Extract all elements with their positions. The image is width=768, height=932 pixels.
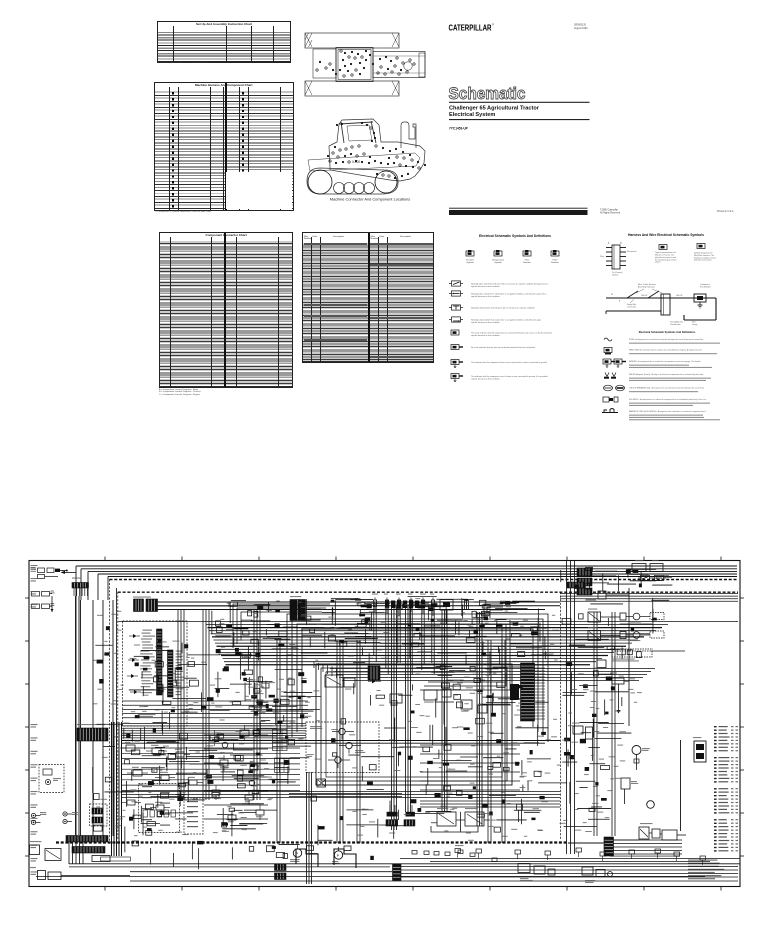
corner wire routing center right bbox=[420, 620, 510, 690]
svg-text:Schematic: Schematic bbox=[449, 84, 526, 103]
svg-text:Number: Number bbox=[551, 261, 559, 264]
table: Component Connector Chart bbox=[159, 232, 293, 388]
resistor block bbox=[572, 723, 593, 740]
machine top view illustration bbox=[305, 33, 425, 96]
svg-text:Printed in U.S.A.: Printed in U.S.A. bbox=[717, 210, 734, 213]
frame tick marks bbox=[25, 557, 744, 891]
lamp components left bbox=[31, 812, 77, 825]
note line bbox=[610, 856, 680, 857]
svg-text:Number: Number bbox=[523, 261, 531, 264]
footer bar bbox=[449, 208, 588, 215]
top view connector location dots bbox=[316, 50, 415, 77]
svg-text:specific decrease in that cond: specific decrease in that condition. bbox=[471, 321, 500, 324]
fuse block connector comb bbox=[72, 578, 89, 597]
svg-text:7YC1453-UP: 7YC1453-UP bbox=[449, 126, 469, 130]
schematic notes text bbox=[688, 860, 724, 880]
table: Machine Harness Connector chart bbox=[154, 82, 294, 211]
terminal block bbox=[92, 856, 131, 862]
cab harness connector bbox=[290, 596, 306, 621]
svg-text:shown.: shown. bbox=[655, 262, 661, 264]
solenoid circuit row 1 bbox=[588, 609, 664, 623]
svg-text:specific decrease in that cond: specific decrease in that condition. bbox=[471, 285, 500, 288]
wire bbox=[420, 745, 520, 790]
cab harness horizontal bundle bbox=[122, 724, 306, 741]
comb connector bbox=[567, 582, 585, 588]
battery connection group bbox=[31, 567, 68, 579]
main feed harness lines bbox=[118, 602, 738, 622]
svg-text:RELAY (Magnetic Switch) - A re: RELAY (Magnetic Switch) - A relay is an … bbox=[629, 373, 704, 376]
Caterpillar logo bbox=[449, 23, 495, 33]
svg-text:SOLENOID - A component in an e: SOLENOID - A component in an electrical … bbox=[629, 398, 706, 401]
rule under title bbox=[449, 101, 590, 103]
heavy vertical harness bundle bbox=[112, 722, 122, 856]
example wiring circuit bbox=[606, 283, 716, 326]
pressure switches bbox=[290, 845, 343, 864]
wire bbox=[122, 701, 308, 718]
side view connector location dots bbox=[327, 122, 426, 179]
svg-text:Temperature: Temperature bbox=[492, 258, 505, 261]
instrument connector strip J2 bbox=[168, 650, 185, 697]
concentric wire routing loops bbox=[287, 614, 548, 742]
svg-text:Normally closed switch that wi: Normally closed switch that will open wi… bbox=[471, 306, 536, 309]
wire bbox=[680, 740, 682, 831]
solenoid circuit row 2 bbox=[588, 627, 664, 641]
horn circuit dashed box bbox=[39, 765, 64, 793]
svg-text:Electrical Schematic Symbols A: Electrical Schematic Symbols And Definit… bbox=[479, 234, 551, 238]
wire riser group bbox=[69, 842, 83, 864]
table: Wire Description Chart bbox=[302, 232, 434, 364]
svg-text:CIRCUIT BREAKER (CB) - A compo: CIRCUIT BREAKER (CB) - A component in an… bbox=[629, 387, 704, 390]
svg-text:Wire: Wire bbox=[525, 258, 530, 261]
fuse block grid lower bbox=[275, 758, 290, 772]
footnotes under table 3 bbox=[159, 389, 289, 397]
brake switch loops bbox=[296, 846, 356, 868]
instrument panel dashed enclosure bbox=[123, 621, 188, 726]
svg-text:Electrical System: Electrical System bbox=[449, 112, 495, 118]
left vertical bus bundle bbox=[76, 588, 117, 836]
dashed rail lower bbox=[118, 591, 738, 593]
lower left connector combs bbox=[275, 864, 287, 880]
svg-text:FUSE - A component in an elect: FUSE - A component in an electrical circ… bbox=[629, 338, 704, 341]
svg-text:Harness And Wire Electrical Sc: Harness And Wire Electrical Schematic Sy… bbox=[628, 233, 704, 237]
wire bundle B bbox=[406, 606, 411, 812]
right feed wires bbox=[560, 594, 738, 602]
left margin circuit labels bbox=[31, 565, 38, 875]
svg-text:specific decrease in that cond: specific decrease in that condition. bbox=[471, 378, 500, 381]
cab accessory components bbox=[120, 742, 203, 810]
flasher unit bbox=[30, 841, 62, 861]
bottom harness connector and rails bbox=[393, 864, 739, 881]
symbol definitions column 2 bbox=[602, 338, 720, 420]
svg-text:Normally open switch that will: Normally open switch that will close wit… bbox=[471, 282, 549, 285]
footnote under table 1 bbox=[157, 62, 267, 65]
svg-text:145-OR: 145-OR bbox=[676, 295, 683, 297]
svg-text:August 1990: August 1990 bbox=[574, 27, 588, 30]
printed in USA bbox=[717, 210, 734, 213]
heading Electrical Schematic Symbols And Definitions bbox=[479, 234, 551, 238]
cab floor connector comb bbox=[77, 724, 108, 741]
symbol legend row bbox=[466, 250, 559, 264]
svg-text:Challenger 65 Agricultural Tra: Challenger 65 Agricultural Tractor bbox=[449, 105, 540, 111]
svg-text:©1990 Caterpillar: ©1990 Caterpillar bbox=[600, 208, 618, 211]
key switch connectors bbox=[32, 591, 55, 613]
svg-text:No circle indicates that the w: No circle indicates that the wire cannot… bbox=[471, 346, 536, 349]
wire bbox=[400, 859, 740, 862]
svg-text:Normally open switch that is c: Normally open switch that is closed due … bbox=[471, 292, 547, 295]
gauge cluster dashed box bbox=[184, 798, 203, 834]
dashed enclosure inner left edge bbox=[117, 592, 119, 840]
chassis component row bbox=[455, 848, 706, 865]
svg-text:SENDER - A component that is u: SENDER - A component that is used with a… bbox=[629, 360, 701, 363]
svg-text:Normally closed switch that is: Normally closed switch that is open due … bbox=[471, 318, 541, 321]
instrument connector strip J1 bbox=[140, 629, 162, 695]
svg-text:16: 16 bbox=[611, 294, 613, 296]
wire plate note bbox=[694, 244, 716, 262]
right vertical feeders bbox=[594, 612, 615, 836]
wire number labels scatter bbox=[93, 598, 642, 841]
svg-text:Symbol: Symbol bbox=[466, 262, 474, 264]
dashed enclosure right edge bbox=[560, 592, 562, 840]
svg-text:MAGNETIC LATCH (SOLENOID) - A: MAGNETIC LATCH (SOLENOID) - A magnetic l… bbox=[629, 410, 706, 413]
svg-text:The circle indicates that the: The circle indicates that the component … bbox=[471, 331, 552, 334]
svg-text:Connection: Connection bbox=[627, 306, 636, 309]
rule under subtitle bbox=[449, 119, 590, 121]
instrument panel label bbox=[138, 714, 156, 717]
svg-text:specific decrease in that cond: specific decrease in that condition. bbox=[471, 334, 500, 337]
fuse panel row bbox=[355, 594, 503, 676]
svg-text:Symbol: Symbol bbox=[494, 262, 502, 264]
sensor with cross bbox=[317, 779, 326, 787]
starter relay group bbox=[614, 823, 686, 840]
dashed rail upper bbox=[110, 579, 739, 581]
dashed enclosure left edge bbox=[109, 579, 111, 843]
cab floor harness lines bbox=[122, 741, 560, 744]
heading Harness And Wire Electrical Schematic Symbols bbox=[628, 233, 704, 237]
shift solenoid pair bbox=[431, 808, 490, 832]
sender circuit bbox=[597, 660, 624, 714]
footnote under table 2 bbox=[154, 211, 284, 214]
wire pair to sensors bbox=[289, 794, 402, 802]
svg-text:Plug: Plug bbox=[600, 256, 604, 258]
svg-text:145-OR: 145-OR bbox=[641, 295, 648, 297]
wiper and blower components bbox=[210, 725, 264, 825]
switch panel dashed box bbox=[139, 784, 180, 833]
svg-text:Part Number: Part Number bbox=[700, 286, 711, 289]
cab wiring rows bbox=[122, 748, 300, 790]
wire color legend list bbox=[714, 726, 738, 852]
separator continuation wire bbox=[568, 842, 604, 844]
lower harness wires bbox=[122, 792, 560, 808]
wire bundle F bbox=[567, 561, 575, 854]
svg-text:both pins and sockets.: both pins and sockets. bbox=[694, 259, 712, 262]
svg-text:Machine Connector And Componen: Machine Connector And Component Location… bbox=[330, 197, 411, 202]
transmission connector pair bbox=[386, 805, 415, 826]
wire bbox=[628, 588, 630, 726]
machine side view illustration bbox=[307, 119, 425, 194]
svg-text:B: B bbox=[619, 301, 621, 303]
schematic border frame bbox=[29, 561, 740, 887]
switch and component symbol definitions bbox=[449, 281, 552, 382]
alternator circuit bbox=[621, 778, 654, 808]
svg-text:Plate: Plate bbox=[553, 258, 559, 261]
table: Set Up Instructions chart bbox=[157, 21, 291, 63]
svg-text:P: P bbox=[337, 854, 340, 858]
connector stack right top bbox=[577, 568, 592, 595]
junction block dark comb bbox=[368, 666, 380, 680]
backup alarm bbox=[30, 867, 130, 880]
flasher relay and diode bbox=[325, 671, 381, 690]
vertical interconnect bundles bbox=[178, 610, 505, 843]
dashed actuator box bbox=[610, 649, 653, 662]
caption Machine Connector And Component Locations bbox=[330, 197, 411, 202]
main bulkhead connector strip bbox=[521, 663, 546, 721]
svg-text:This indicates that the compon: This indicates that the component frame … bbox=[471, 361, 548, 364]
long connector strip lower bbox=[66, 836, 108, 843]
bottom bus rails bbox=[36, 864, 740, 881]
form number SENR3135 bbox=[574, 24, 588, 30]
svg-text:Number: Number bbox=[612, 275, 619, 277]
heading Electrical Schematic Symbols And Definitions 2 bbox=[639, 330, 696, 334]
svg-text:All Rights Reserved: All Rights Reserved bbox=[600, 212, 621, 215]
svg-text:This indicates that the compon: This indicates that the component case i… bbox=[471, 375, 548, 378]
fuse block grid upper bbox=[273, 730, 288, 751]
wire bundle C bbox=[442, 610, 447, 812]
title Schematic bbox=[449, 84, 526, 103]
heavy dashed harness separator bbox=[56, 841, 568, 843]
svg-text:Assembly Indication: Assembly Indication bbox=[638, 286, 655, 289]
svg-text:®: ® bbox=[492, 24, 494, 27]
corner wire routing upper left bbox=[233, 604, 330, 648]
serial number 7YC1453-UP bbox=[449, 126, 469, 130]
bulkhead connector pair bbox=[133, 597, 290, 612]
main power bus wires top bbox=[61, 566, 738, 600]
electronic control dashed box bbox=[306, 722, 379, 773]
starter motor bbox=[693, 737, 706, 762]
svg-text:A1: A1 bbox=[620, 242, 622, 245]
harness wire band bbox=[206, 625, 668, 681]
wire bundle A bbox=[392, 606, 397, 830]
fuel sender group bbox=[518, 864, 555, 882]
rear harness connector bbox=[604, 837, 682, 856]
svg-text:CATERPILLAR: CATERPILLAR bbox=[449, 23, 492, 33]
wire bundle E bbox=[307, 772, 312, 884]
svg-text:Positive: Positive bbox=[466, 258, 474, 261]
connector dashed box bbox=[90, 804, 108, 826]
harness junction dark block bbox=[510, 684, 519, 700]
machine connector note bbox=[655, 245, 677, 264]
svg-text:Electrical Schematic Symbols A: Electrical Schematic Symbols And Definit… bbox=[639, 330, 696, 334]
wire bbox=[204, 735, 268, 819]
copyright text bbox=[600, 208, 621, 214]
center routed wire rectangles bbox=[316, 664, 512, 785]
miscellaneous wiring detail bbox=[93, 567, 685, 869]
wire bundle D bbox=[477, 612, 482, 826]
wire bbox=[76, 596, 80, 835]
harness connector symbol bbox=[600, 242, 636, 277]
small sensors row bbox=[412, 845, 497, 862]
connector to lamp feed bbox=[598, 591, 629, 599]
svg-text:A: A bbox=[608, 242, 610, 245]
svg-text:REED SWITCH - A switch whose c: REED SWITCH - A switch whose contacts ar… bbox=[629, 349, 702, 352]
subtitle Challenger 65 bbox=[449, 105, 540, 118]
switch group right top bbox=[632, 560, 672, 581]
svg-text:Gauge: Gauge bbox=[692, 324, 697, 326]
svg-text:specific decrease in that cond: specific decrease in that condition. bbox=[471, 295, 500, 298]
wire corner turns bbox=[314, 662, 337, 678]
svg-text:Classification: Classification bbox=[670, 323, 681, 326]
svg-text:Receptacle: Receptacle bbox=[627, 250, 636, 253]
connector strip lower 2 bbox=[72, 847, 105, 854]
instrument panel diodes bbox=[127, 634, 141, 694]
tail lamp group bbox=[582, 867, 613, 883]
hour meter gauge bbox=[632, 746, 650, 771]
relay group center bbox=[390, 689, 487, 713]
